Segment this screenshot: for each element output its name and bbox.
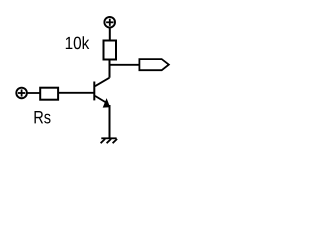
- base wire: [59, 92, 95, 94]
- transistor Q1 base bar: [93, 82, 95, 101]
- ground: [101, 138, 118, 143]
- resistor R1 10k: [104, 41, 117, 60]
- wire VCC to R1: [109, 28, 111, 40]
- output tag (pointer): [139, 59, 168, 70]
- label 10k: [66, 36, 90, 49]
- wire input terminal to Rs: [28, 92, 41, 94]
- wire emitter to ground: [109, 105, 111, 138]
- transistor Q1 emitter diagonal: [95, 96, 106, 103]
- supply terminal VCC (circle with plus): [104, 17, 115, 28]
- resistor Rs: [40, 88, 58, 100]
- label Rs: [35, 111, 51, 124]
- emitter arrowhead: [103, 98, 110, 108]
- wire node to output tag: [110, 64, 140, 66]
- wire R1 to collector node: [109, 60, 111, 78]
- input terminal (circle with plus): [16, 88, 27, 99]
- transistor Q1 collector diagonal: [95, 78, 110, 87]
